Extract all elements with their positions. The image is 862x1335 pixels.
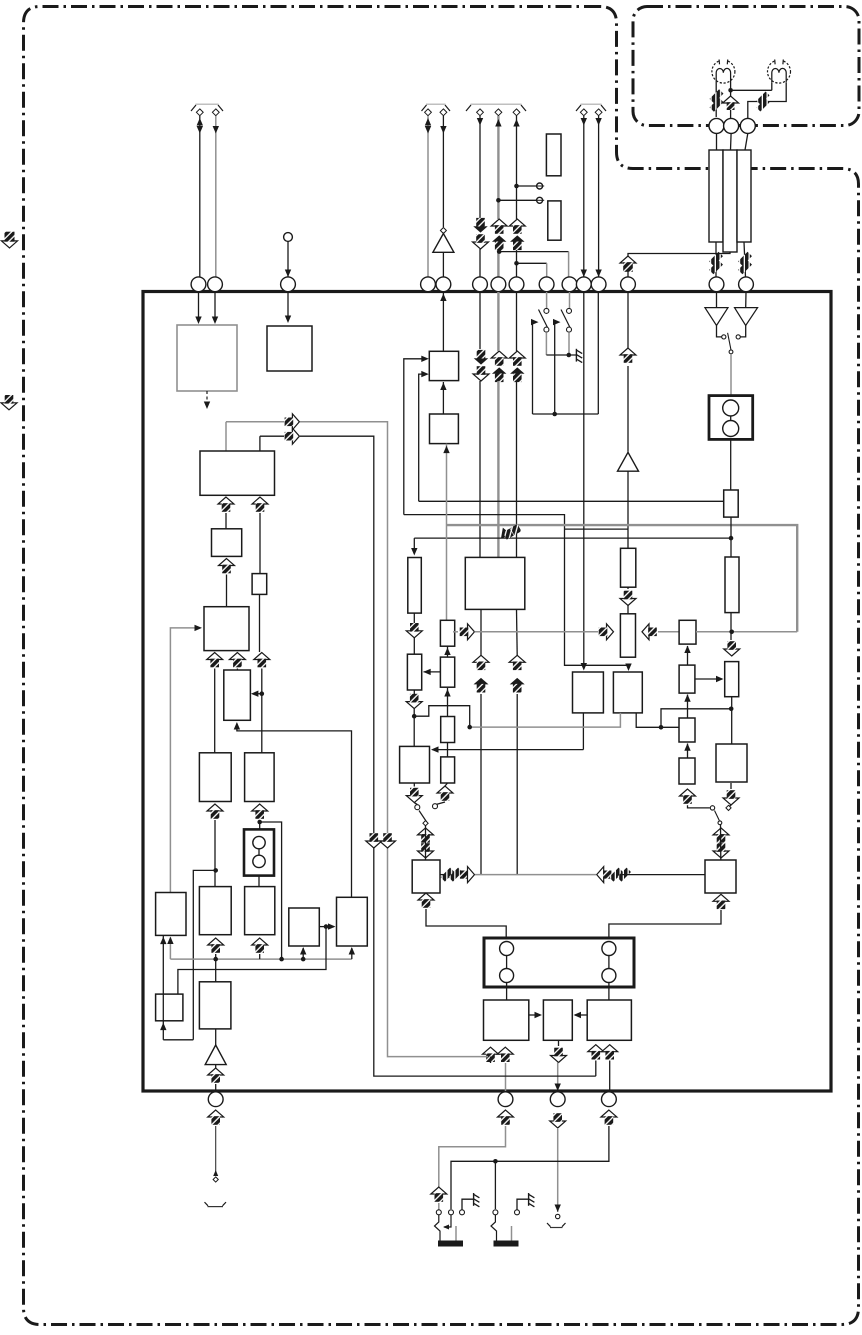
- wire T4 to pin: [425, 116, 431, 277]
- junction J-959c: [301, 957, 306, 962]
- bus B525 (gray): [447, 525, 798, 632]
- wire T2 to pin: [213, 116, 219, 277]
- resistor R408b: [407, 654, 421, 690]
- IC main block outline: [143, 292, 831, 1092]
- wire T6 to pin: [477, 116, 483, 277]
- switch select riser 2: [553, 319, 561, 414]
- wire U10 out a: [595, 1061, 597, 1077]
- pin PB3 (IC bottom): [550, 1092, 565, 1107]
- op-amp buffer A3: [205, 1045, 226, 1065]
- wire W2 stub b: [636, 713, 679, 727]
- pin P5 (IC top): [436, 277, 451, 292]
- terminal diamond T6: [477, 109, 484, 116]
- block U15 (H1): [199, 753, 231, 802]
- wire C-top riser 2: [259, 436, 261, 451]
- wire X2 to K: [258, 876, 260, 887]
- switch SW2 contact b: [567, 327, 572, 332]
- branch to jack2: [494, 1161, 496, 1209]
- resistor RC2: [679, 665, 695, 693]
- block U19 (K): [245, 887, 275, 935]
- wire R731b down: [730, 613, 732, 640]
- flag F-U426b: [418, 893, 434, 908]
- X3 circle b: [723, 421, 739, 437]
- bus Y959 (gray): [170, 958, 351, 960]
- block U24 (W1): [573, 672, 604, 713]
- wire L to M: [319, 923, 335, 929]
- wire PB2 route (gray): [439, 1126, 506, 1187]
- bus B529: [565, 528, 629, 530]
- wire rail-b: [300, 436, 596, 1076]
- wire pin1 into U1: [195, 292, 201, 324]
- wire osc link (gray): [475, 874, 596, 876]
- flag F-D558: [551, 1048, 567, 1063]
- junction J-661: [659, 725, 664, 730]
- flag F-D414c: [406, 694, 422, 709]
- stub to test point TP2: [498, 199, 536, 201]
- wire pin2 into U1: [212, 292, 218, 324]
- flag F-U499: [491, 351, 507, 382]
- pin P7 (IC top): [491, 277, 506, 292]
- wire V to SW4: [729, 783, 731, 807]
- resistor RC4: [679, 758, 695, 784]
- junction J-sp: [728, 88, 733, 93]
- wire pin13 down: [627, 292, 629, 348]
- block U20 (L): [289, 908, 320, 946]
- pin P1 (IC top): [191, 277, 206, 292]
- wire T1 to pin: [197, 116, 203, 277]
- block U6: [400, 746, 430, 783]
- wire U5 out a: [480, 609, 482, 655]
- wire U5 out b: [516, 609, 519, 655]
- arrow RC2 to R-E: [695, 676, 724, 682]
- terminal circle T3: [284, 233, 293, 242]
- resistor RC1: [679, 620, 696, 644]
- flag F-U438: [431, 1187, 447, 1202]
- flag F2U-517: [510, 678, 525, 693]
- pin P10 (IC top): [562, 277, 577, 292]
- flag F-U426a: [418, 828, 434, 843]
- flag F-R293: [285, 428, 300, 444]
- resistor R731b: [725, 557, 739, 613]
- pin PB2 (IC bottom): [498, 1092, 513, 1107]
- gnd rail: [546, 354, 576, 356]
- crystal X1 pin c4: [602, 969, 616, 983]
- wire 628 seg2: [627, 366, 629, 452]
- junction J-bus414: [552, 412, 557, 417]
- flag F-U505b: [498, 1110, 514, 1125]
- resistor R628: [621, 548, 636, 587]
- wire SP1 right lead: [730, 83, 732, 119]
- wire B632 b (gray): [658, 631, 679, 633]
- left rail into E: [170, 625, 202, 893]
- wire pin8 down to U5: [516, 292, 518, 557]
- wire U27 to crystal: [609, 910, 721, 938]
- block U13 (E): [204, 607, 249, 651]
- wire U8 out a: [490, 1057, 492, 1063]
- wire T9 to pin: [581, 116, 587, 277]
- pin P12 (IC top): [591, 277, 606, 292]
- resistor R731a: [724, 490, 739, 517]
- resistor pack R1a: [709, 150, 723, 242]
- flag F-D731b: [723, 790, 739, 805]
- flag F-L642: [642, 624, 657, 640]
- branch to N rail: [193, 870, 215, 1039]
- wire R731a-b: [730, 517, 732, 557]
- block U3: [429, 351, 458, 380]
- crystal X1 pin c3: [602, 942, 616, 956]
- connector pin CP2: [724, 118, 739, 133]
- test point TP1: [535, 183, 544, 189]
- wire 628 seg4: [627, 587, 629, 589]
- junction J-716: [412, 714, 417, 719]
- wire pin15 down: [745, 292, 747, 308]
- wire pin12 riser: [597, 292, 599, 414]
- rail U4-SR (gray): [443, 444, 449, 621]
- flag F-D628b: [620, 591, 636, 606]
- ground G2: [474, 1193, 480, 1207]
- switch SW3 arm: [419, 811, 428, 825]
- switch SW1 contact a: [544, 308, 549, 313]
- wire PB3 down (gray): [555, 1129, 561, 1212]
- wire R260 down: [259, 594, 261, 652]
- flag F-D373: [366, 833, 382, 848]
- wire T5 upper: [440, 116, 446, 227]
- wire chain up b: [684, 694, 690, 718]
- marker diamond SW3: [423, 821, 428, 826]
- wire E out1: [214, 669, 216, 753]
- terminal diamond T2: [212, 109, 219, 116]
- flag on wire to pin628: [620, 256, 636, 272]
- flag F-U721a: [713, 828, 729, 843]
- flag F-D387: [380, 833, 396, 848]
- wire feed pin9: [517, 263, 547, 277]
- earphone SP1: [712, 59, 735, 84]
- wire U4 to U3: [440, 382, 446, 414]
- switch SW2 arm: [561, 310, 570, 328]
- junction J-1161: [493, 1159, 498, 1164]
- junction J-632: [729, 630, 734, 635]
- block U-RE: [725, 662, 739, 697]
- flag F-U490: [483, 1047, 499, 1062]
- bottom bracket BR2: [547, 1223, 566, 1228]
- resistor SR3: [441, 717, 455, 743]
- bus B515: [404, 515, 632, 671]
- pin P11 (IC top): [576, 277, 591, 292]
- wire 628 seg5: [627, 606, 629, 614]
- flag F-U215c: [207, 804, 223, 819]
- pin P8 (IC top): [509, 277, 524, 292]
- wire pin11 to U-W1: [581, 292, 587, 671]
- wire D to E: [226, 575, 228, 607]
- wire SR2 tap left: [423, 669, 440, 675]
- flag F2L-610: [597, 867, 631, 883]
- flag F-U237: [229, 653, 245, 668]
- switch SW5 contact a: [722, 335, 726, 339]
- resistor SR4: [441, 757, 455, 783]
- wire pin3 into U2: [285, 292, 291, 323]
- wire SW5 to box X3: [730, 354, 732, 396]
- wire W1 out: [582, 713, 584, 750]
- junction J-708: [729, 707, 734, 712]
- junction J-lm: [324, 924, 329, 929]
- wire pin14 down: [716, 292, 718, 308]
- flag F-U260c: [252, 804, 268, 819]
- wire SR3-SR4: [447, 743, 449, 757]
- flag F-R290: [285, 414, 300, 430]
- X2 circle a: [253, 836, 265, 848]
- inverter A5: [735, 308, 758, 326]
- flag stack F-U499t: [491, 219, 507, 250]
- pin PB1 (IC bottom): [208, 1092, 223, 1107]
- wire rail-a2 (gray): [300, 422, 488, 1057]
- wire U8 out b: [505, 1063, 507, 1091]
- flag F-D414: [406, 623, 422, 638]
- switch SW5 contact b: [736, 335, 740, 339]
- block U8: [484, 1000, 529, 1040]
- wire R1a down: [715, 242, 717, 277]
- pin P15 (IC top): [739, 277, 754, 292]
- wire H2 out: [259, 820, 261, 829]
- wire T10 to pin: [595, 116, 601, 277]
- pin P13 (IC top): [621, 277, 636, 292]
- switch select bus: [533, 413, 599, 415]
- terminal bracket TB1: [191, 104, 223, 111]
- pin P2 (IC top): [208, 277, 223, 292]
- resistor RC3: [679, 718, 695, 742]
- wire K down: [259, 954, 261, 959]
- bottom bracket BR1: [205, 1202, 227, 1207]
- earphone SP2: [768, 59, 791, 84]
- rotated flag on B538: [495, 520, 522, 543]
- branch W2 to RES-V line: [661, 709, 731, 728]
- wire SW1 to gnd rail: [545, 332, 547, 355]
- jack JK1 arm feed: [443, 1215, 451, 1230]
- jack JK1 bar: [438, 1241, 463, 1247]
- wire CP1 to R-pack: [716, 133, 718, 150]
- switch select riser 1: [531, 319, 539, 414]
- wire A4 to contact: [717, 326, 722, 337]
- block U10: [587, 1000, 631, 1040]
- wire C out1: [225, 513, 227, 529]
- bus B538: [414, 537, 731, 539]
- flag stack F-D480t: [473, 218, 489, 249]
- pin P9 (IC top): [539, 277, 554, 292]
- wire CP3 to R-pack: [745, 133, 748, 150]
- X2 inner wire: [258, 849, 260, 855]
- wire B632 c (gray): [696, 631, 797, 633]
- branch right of H2: [260, 822, 282, 959]
- wire flag to jack1 (gray): [438, 1203, 440, 1210]
- hatch bars on SP1 lead: [710, 89, 724, 111]
- wire RC1 chain up: [684, 646, 690, 666]
- flag F-U216e: [208, 1068, 224, 1083]
- op-amp buffer A2: [618, 452, 639, 471]
- flag F-R605: [599, 624, 614, 640]
- diamond on T5 line: [440, 228, 446, 234]
- wire box2 down: [730, 439, 732, 490]
- open contact PB3: [556, 1214, 560, 1218]
- flag F-U226: [218, 497, 234, 512]
- switch SW1 contact b: [544, 327, 549, 332]
- riser into M: [349, 947, 355, 959]
- flag F2R-450: [441, 867, 475, 883]
- wire pin6 down to U5: [479, 292, 481, 349]
- block U25 (W2): [613, 672, 642, 713]
- resistor SR2: [440, 657, 454, 687]
- junction J-sw: [567, 353, 572, 358]
- pin P4 (IC top): [421, 277, 436, 292]
- switch SW5 arm: [728, 333, 731, 350]
- junction J-959b: [279, 957, 284, 962]
- wire U3 input a: [404, 356, 429, 515]
- flag stack F-U517t: [509, 219, 525, 250]
- flag F-U595: [588, 1045, 604, 1060]
- resistor Rb: [548, 201, 561, 240]
- wire U6 to switch: [414, 783, 417, 805]
- wire R408b down: [413, 690, 415, 746]
- crystal inner wire L: [506, 956, 508, 969]
- flag F-D557: [550, 1113, 566, 1128]
- wire crystal to U8: [506, 983, 508, 1001]
- wire SW4 common: [720, 825, 722, 861]
- junction J-h2: [257, 820, 262, 825]
- block U17 (I): [156, 893, 186, 936]
- flag F-U517: [509, 351, 525, 382]
- wire U3 out to pin5: [440, 292, 446, 351]
- junction on T7 line: [496, 198, 501, 203]
- terminal diamond T4: [425, 109, 432, 116]
- flag F-U216f: [208, 1110, 224, 1125]
- ground G1: [576, 349, 582, 363]
- flag F-U226b: [219, 559, 235, 574]
- block U18 (J): [199, 887, 231, 935]
- wire SR1-SR2: [444, 646, 450, 657]
- block U2: [267, 326, 312, 371]
- X3 circle a: [723, 400, 739, 416]
- hatch bars on SP2 wire: [756, 91, 769, 111]
- block U26 (V): [716, 744, 747, 782]
- off-page flag on left border (upper): [2, 232, 18, 248]
- wire A3 out: [215, 1065, 217, 1068]
- wire rail-b0: [260, 435, 284, 437]
- test point TP2: [535, 197, 544, 203]
- wire C out2: [259, 513, 261, 574]
- wire RE to V: [731, 697, 733, 744]
- jack JK2 arm: [491, 1215, 497, 1241]
- wire J to O: [215, 954, 217, 982]
- terminal bracket TB3: [466, 104, 526, 111]
- crystal X1 pin c2: [500, 969, 514, 983]
- riser into L: [300, 947, 306, 959]
- wire pin10 to SW2: [569, 292, 571, 308]
- resistor SR1: [440, 620, 454, 646]
- switch SW4 arm: [715, 811, 722, 825]
- wire pin9 to SW1: [546, 292, 548, 308]
- jack JK2 gnd wire: [517, 1199, 529, 1209]
- wire M to F: [234, 722, 352, 897]
- stub to test point TP1: [517, 185, 537, 187]
- flag F-U608: [601, 1110, 617, 1125]
- bus Y1040: [163, 1039, 193, 1041]
- wire U7 to crystal: [426, 909, 506, 938]
- flag F-R461: [460, 624, 475, 640]
- block U14 (F): [224, 670, 251, 720]
- junction J-538: [729, 536, 734, 541]
- wire 628 seg3: [627, 471, 629, 529]
- block U1 (gray): [177, 325, 237, 391]
- jack JK1 gnd wire: [462, 1199, 474, 1209]
- flag F-U214: [207, 653, 223, 668]
- wire SR4 to switch: [436, 783, 448, 805]
- flag F-D481: [473, 350, 489, 381]
- hatch bars below R1c: [738, 252, 752, 274]
- pin PB4 (IC bottom): [602, 1092, 617, 1107]
- block U11 (C): [200, 451, 275, 495]
- switch SW4 contact a: [710, 806, 714, 810]
- resistor Ra: [546, 134, 561, 176]
- wire O out: [215, 1029, 217, 1045]
- stub Y959 to I: [167, 937, 173, 960]
- wire U7 out: [440, 874, 446, 876]
- wire A3 to pin: [215, 1084, 217, 1091]
- flag F-U260: [252, 497, 268, 512]
- crystal box X1: [484, 938, 634, 987]
- wire PB1 down: [213, 1126, 218, 1176]
- crystal inner wire R: [608, 956, 610, 969]
- wire R1c down: [744, 242, 746, 277]
- wire RC4 to SW4: [688, 805, 710, 808]
- accessory dash-dot box (top right): [633, 7, 859, 126]
- junction on T8 line: [514, 184, 519, 189]
- wire U5 out a2: [480, 694, 482, 875]
- switch SW4 contact b: [726, 805, 731, 810]
- wire into U6 right: [431, 746, 583, 752]
- wire CP2 to R-pack: [730, 133, 733, 150]
- X3 inner wire: [730, 416, 732, 421]
- jack JK1 contact c: [460, 1210, 465, 1215]
- flag F-D731: [724, 641, 740, 656]
- off-page flag on left border (lower): [1, 395, 17, 410]
- arrow U8 to U9: [529, 1012, 542, 1018]
- flag F-U628: [620, 348, 636, 363]
- switch SW2 contact a: [567, 308, 572, 313]
- bus B501: [419, 500, 724, 502]
- wire A1 to pin: [442, 252, 444, 277]
- block U27 (osc driver R): [705, 860, 736, 893]
- jack JK2 contact b: [515, 1210, 520, 1215]
- wire T3 to pin: [285, 242, 291, 278]
- block U9: [543, 1000, 572, 1040]
- jack JK1 contact a: [436, 1210, 441, 1215]
- crystal X1 pin c1: [500, 942, 514, 956]
- wire PB4 route: [451, 1126, 609, 1209]
- pin P14 (IC top): [709, 277, 724, 292]
- block U7 (osc driver L): [412, 860, 440, 893]
- flag F-U444: [437, 786, 453, 801]
- resistor R408a: [408, 558, 422, 614]
- wire crystal to U10: [608, 983, 610, 1001]
- wire B632 a (gray): [453, 631, 598, 633]
- block U16 (H2): [245, 753, 275, 802]
- block U12 (D): [212, 529, 242, 557]
- jack JK2 bar: [494, 1241, 519, 1247]
- junction feed pin9: [514, 261, 519, 266]
- terminal diamond T7: [495, 109, 502, 116]
- flag F-U481: [473, 655, 489, 670]
- rail through N: [160, 935, 166, 1039]
- wire R408a-b: [413, 613, 415, 654]
- flag F-D426: [418, 843, 434, 858]
